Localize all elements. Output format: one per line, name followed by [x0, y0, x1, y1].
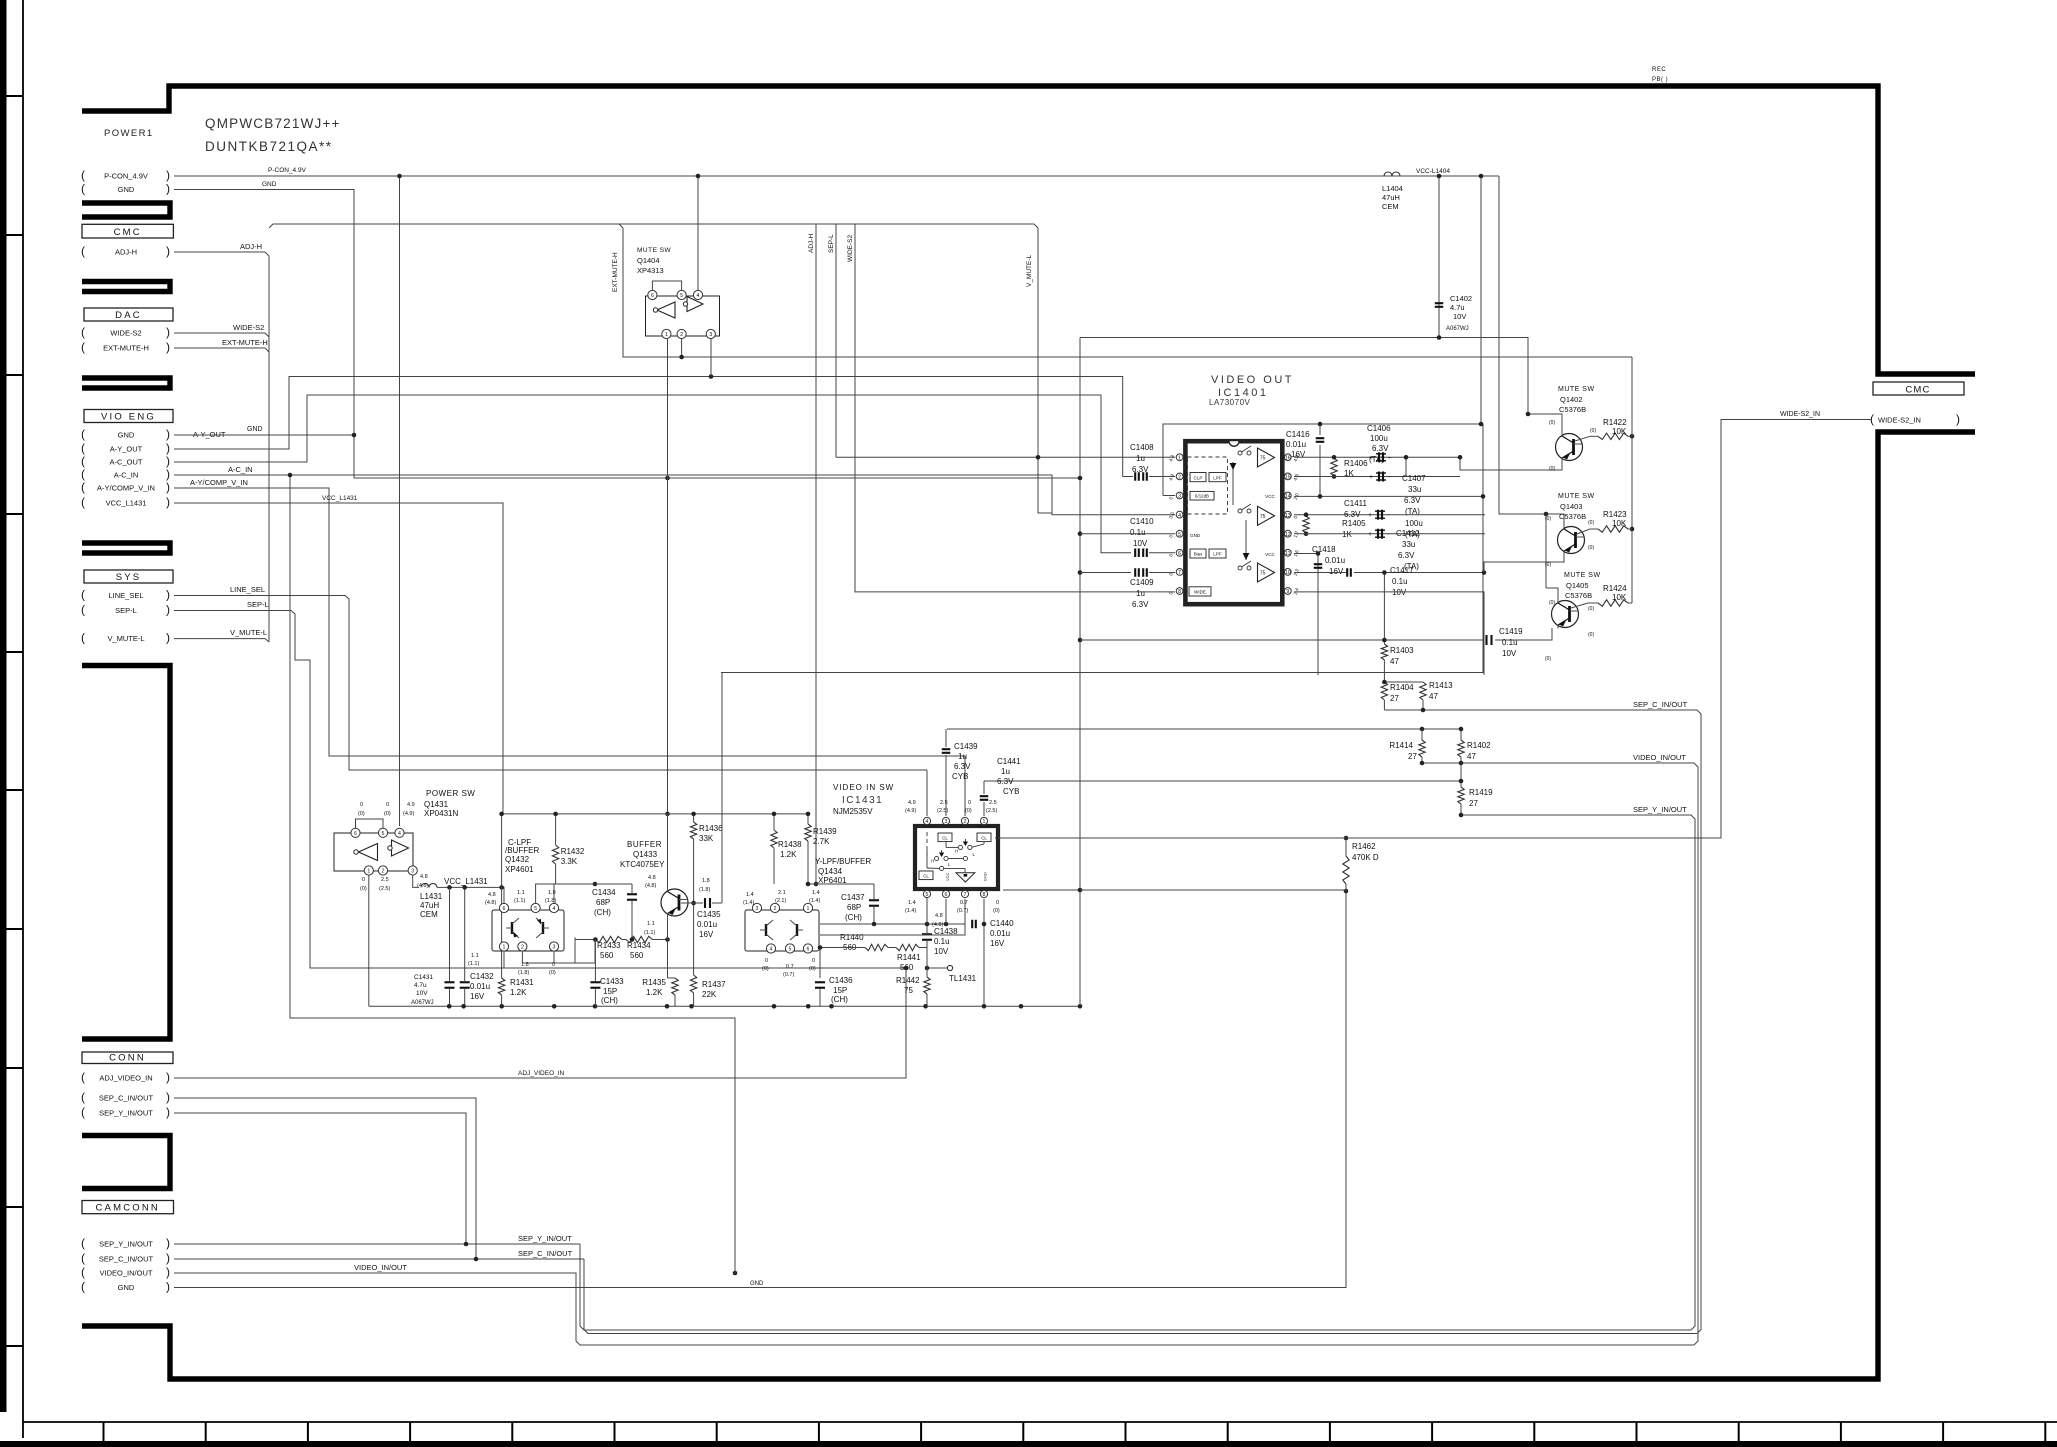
svg-text:CLP: CLP [1194, 475, 1203, 480]
svg-text:R1423: R1423 [1603, 510, 1627, 519]
wire SEP-L drop [835, 224, 837, 457]
svg-text:R1433: R1433 [597, 941, 621, 950]
svg-text:V_MUTE-L: V_MUTE-L [230, 628, 267, 637]
svg-text:(0): (0) [1549, 466, 1555, 472]
capacitor C1441 [980, 795, 989, 797]
IC1401 block CLP [1190, 473, 1206, 482]
IC1401 pin 1 [1176, 454, 1183, 461]
wire IC1431 pin7 down [820, 899, 965, 935]
svg-text:1.8: 1.8 [548, 890, 556, 896]
svg-text:-: - [1387, 510, 1390, 519]
wire CAMCONN SEP_C [174, 1258, 584, 1260]
wire pin15 row [1294, 476, 1460, 478]
left frame line [22, 0, 24, 1438]
svg-text:7: 7 [964, 892, 967, 898]
wire R1404/R1413 top tie [1384, 681, 1423, 683]
Q1434 pin 1 [803, 903, 812, 912]
svg-text:1.2K: 1.2K [646, 988, 663, 997]
wire C1434 bottom [631, 901, 633, 940]
svg-text:10V: 10V [416, 990, 428, 997]
wire x722 from IC1401 rail to C1435 [721, 673, 723, 904]
wire IC1431 pin2 up [964, 756, 966, 816]
left ruler ticks [6, 95, 23, 97]
svg-text:C1435: C1435 [697, 910, 721, 919]
wire VCC_L1431 pin [174, 503, 503, 814]
svg-text:47: 47 [1390, 657, 1399, 666]
svg-text:10V: 10V [1133, 539, 1148, 548]
svg-text:2: 2 [382, 869, 385, 875]
IC1431 pin 5 [923, 890, 930, 897]
wire CAMCONN VIDEO_IN/OUT [174, 1273, 1694, 1345]
wire Q1404 pin3 down to y376 [710, 339, 712, 377]
svg-text:VCC_L1431: VCC_L1431 [322, 495, 358, 502]
wire WIDE-S2 join bundle [174, 333, 269, 337]
resistor R1433 [595, 936, 622, 942]
svg-text:(0): (0) [358, 811, 365, 817]
svg-text:WIDE-S2_IN: WIDE-S2_IN [1780, 411, 1820, 418]
svg-text:R1414: R1414 [1389, 741, 1413, 750]
wire pin12 row [1294, 533, 1485, 535]
svg-text:CMC: CMC [1905, 385, 1930, 396]
wire CAMCONN GND [174, 891, 1346, 1288]
IC1401 block LPF [1209, 549, 1226, 558]
svg-text:(2.1): (2.1) [775, 898, 786, 904]
svg-text:(: ( [81, 1105, 85, 1119]
svg-text:R1422: R1422 [1603, 418, 1627, 427]
svg-text:CEM: CEM [420, 910, 438, 919]
resistor R1434 [626, 936, 653, 942]
Q1404 pin 4 [693, 290, 702, 299]
wire GND vio-eng pin to x354 [174, 434, 354, 436]
svg-text:(: ( [81, 325, 85, 339]
svg-text:6.3V: 6.3V [1132, 600, 1149, 609]
svg-text:C1432: C1432 [470, 972, 494, 981]
svg-text:C1409: C1409 [1130, 578, 1154, 587]
wire pin16 row [1294, 456, 1460, 458]
svg-text:5: 5 [926, 892, 929, 898]
wire bundle left vertical x269 [174, 252, 269, 642]
IC1401 inner dashed [1188, 457, 1228, 514]
svg-text:2.5: 2.5 [940, 800, 948, 806]
svg-text:): ) [166, 244, 170, 258]
wire mute bus x1632 [1631, 357, 1633, 603]
svg-text:A-Y/COMP_V_IN: A-Y/COMP_V_IN [190, 478, 248, 487]
svg-text:R1424: R1424 [1603, 584, 1627, 593]
svg-text:): ) [166, 427, 170, 441]
svg-text:VIDEO_IN/OUT: VIDEO_IN/OUT [100, 1269, 153, 1278]
inductor L1404 [1384, 172, 1392, 176]
junction CONN SEP_Y [464, 1242, 469, 1247]
svg-text:ADJ_VIDEO_IN: ADJ_VIDEO_IN [518, 1070, 565, 1077]
svg-text:ADJ_VIDEO_IN: ADJ_VIDEO_IN [99, 1074, 152, 1083]
inductor L1431 [421, 883, 429, 887]
capacitor C1418 [1314, 563, 1323, 565]
svg-text:P-CON_4.9V: P-CON_4.9V [268, 167, 307, 174]
svg-text:(0): (0) [549, 970, 556, 976]
wire C1437 top [873, 884, 875, 899]
svg-text:SEP_Y_IN/OUT: SEP_Y_IN/OUT [518, 1234, 572, 1243]
svg-text:KTC4075EY: KTC4075EY [620, 860, 665, 869]
svg-text:1: 1 [367, 869, 370, 875]
svg-text:CONN: CONN [109, 1053, 146, 1064]
junction P-CON x399 [397, 174, 402, 179]
svg-text:1: 1 [503, 945, 506, 951]
svg-text:): ) [166, 480, 170, 494]
svg-text:P-CON_4.9V: P-CON_4.9V [104, 172, 148, 181]
svg-text:4.9: 4.9 [908, 800, 916, 806]
svg-text:560: 560 [600, 951, 614, 960]
svg-text:(0): (0) [1588, 632, 1594, 638]
IC1401 amp 75 a [1258, 448, 1275, 467]
svg-text:(2.5): (2.5) [937, 808, 948, 814]
wire bottom SEP_C long [584, 1259, 1697, 1334]
Q1404 pin 2 [677, 329, 686, 338]
svg-text:): ) [166, 631, 170, 645]
svg-text:1.2K: 1.2K [780, 850, 797, 859]
capacitor C1402 [1435, 302, 1444, 304]
svg-text:(: ( [81, 441, 85, 455]
wire Q1432 pin2 [522, 937, 575, 963]
wire R1432 bottom to Q1432 pin4 [554, 864, 556, 903]
svg-text:(0): (0) [1588, 520, 1594, 526]
svg-text:CAMCONN: CAMCONN [96, 1203, 160, 1214]
resistor R1431 [501, 887, 503, 978]
svg-text:GND: GND [247, 426, 263, 433]
wire R1462 top [1345, 838, 1347, 856]
wire Q1433 emitter down [667, 917, 669, 979]
wire R1433/R1434 row [575, 939, 595, 941]
Q1434 body [745, 910, 819, 951]
svg-text:): ) [166, 168, 170, 182]
junction Q1404 pin3 on y376 [709, 374, 714, 379]
svg-text:SEP-L: SEP-L [115, 606, 137, 615]
capacitor C1438 [922, 933, 932, 935]
svg-text:2: 2 [521, 945, 524, 951]
wire Q1402 collector [1528, 414, 1562, 433]
svg-text:11: 11 [1285, 551, 1290, 557]
svg-text:A-Y_OUT: A-Y_OUT [110, 445, 143, 454]
svg-text:(0.7): (0.7) [957, 908, 968, 914]
svg-text:R1439: R1439 [813, 827, 837, 836]
svg-text:): ) [166, 467, 170, 481]
svg-text:0.1u: 0.1u [1502, 638, 1518, 647]
wire Q1431 pin3 to L1431 [413, 875, 419, 887]
svg-text:): ) [166, 441, 170, 455]
wire C1435 [694, 902, 703, 904]
svg-text:8: 8 [983, 892, 986, 898]
svg-text:Q1404: Q1404 [637, 256, 660, 265]
svg-text:C1412: C1412 [1396, 529, 1420, 538]
IC1401 pin 5 [1176, 530, 1183, 537]
svg-text:15P: 15P [833, 986, 847, 995]
svg-text:Q1433: Q1433 [633, 850, 658, 859]
svg-text:LPF: LPF [1213, 552, 1222, 557]
svg-text:4.8: 4.8 [935, 913, 943, 919]
svg-text:1: 1 [807, 906, 810, 912]
svg-text:R1434: R1434 [627, 941, 651, 950]
svg-text:Bias: Bias [1194, 552, 1203, 557]
svg-text:(TA): (TA) [1369, 455, 1384, 464]
svg-text:VIDEO_IN/OUT: VIDEO_IN/OUT [354, 1263, 407, 1272]
Q1434 transistor b [796, 924, 798, 936]
svg-text:VCC_L1431: VCC_L1431 [444, 877, 488, 886]
svg-text:(1.4): (1.4) [743, 900, 754, 906]
IC1401 amp 75 b [1258, 506, 1275, 525]
svg-text:SEP_C_IN/OUT: SEP_C_IN/OUT [1633, 700, 1688, 709]
svg-text:Q1403: Q1403 [1560, 502, 1583, 511]
wire VCC_L1431 row [437, 887, 504, 903]
wire VCC_L1404 branch C1402 [1438, 176, 1440, 338]
svg-text:10V: 10V [934, 947, 949, 956]
wire Q1433 base lead [681, 902, 694, 904]
svg-text:(2.5): (2.5) [379, 886, 390, 892]
wire SEP_Y_IN/OUT right [1461, 815, 1695, 1330]
wire C1416 vertical [1319, 424, 1321, 435]
wire V_MUTE-L join bundle [174, 639, 269, 642]
wire LINE_SEL [174, 596, 927, 771]
svg-text:(1.4): (1.4) [905, 908, 916, 914]
svg-text:MUTE SW: MUTE SW [1564, 572, 1601, 579]
svg-text:5: 5 [534, 906, 537, 912]
svg-text:15P: 15P [603, 987, 617, 996]
svg-text:WIDE-S2: WIDE-S2 [233, 323, 264, 332]
svg-text:CYB: CYB [1003, 787, 1019, 796]
svg-text:68P: 68P [847, 903, 861, 912]
Q1432 pin 1 [499, 942, 508, 951]
wire A-Y/COMP_V_IN [174, 488, 965, 756]
svg-text:75: 75 [904, 986, 913, 995]
junction P-CON x1481 [1479, 174, 1484, 179]
svg-text:R1413: R1413 [1429, 681, 1453, 690]
wire VCC vertical x501 [501, 814, 503, 888]
svg-text:VCC: VCC [945, 872, 950, 881]
svg-text:(: ( [81, 588, 85, 602]
svg-text:75: 75 [1260, 514, 1266, 520]
svg-text:75: 75 [1260, 571, 1266, 577]
svg-text:R1432: R1432 [561, 847, 585, 856]
wire pin14 VCC row [1294, 495, 1483, 497]
svg-text:CYB: CYB [952, 772, 968, 781]
svg-text:(1.4): (1.4) [809, 898, 820, 904]
wire pin9 row [1294, 592, 1484, 675]
svg-text:4: 4 [926, 819, 929, 825]
wire IC1431 pin8 down [983, 899, 985, 1006]
svg-text:CMC: CMC [114, 227, 142, 238]
svg-text:(: ( [81, 480, 85, 494]
wire IC1401 pin1 row [836, 456, 1175, 458]
svg-text:R1438: R1438 [778, 840, 802, 849]
svg-text:Q1434: Q1434 [818, 867, 843, 876]
svg-text:C1406: C1406 [1367, 424, 1391, 433]
svg-text:): ) [166, 1280, 170, 1294]
wire VCC_L1404 down right [1499, 176, 1546, 514]
connector box CONN [82, 1052, 173, 1064]
svg-text:(: ( [81, 427, 85, 441]
svg-text:+: + [1368, 531, 1372, 538]
svg-text:0.01u: 0.01u [1325, 556, 1345, 565]
transistor array Q1404 [646, 296, 720, 336]
Q1404 pin 5 [677, 290, 686, 299]
wire ADJ-H drop from bundle top [815, 224, 817, 884]
svg-text:(0): (0) [384, 811, 391, 817]
wire Q1405 collector [1546, 588, 1558, 600]
svg-text:C1441: C1441 [997, 757, 1021, 766]
svg-text:(CH): (CH) [831, 995, 848, 1004]
resistor R1432 [555, 814, 557, 845]
svg-text:VCC-L1404: VCC-L1404 [1416, 168, 1450, 175]
bottom frame line [23, 1421, 2057, 1423]
svg-text:1u: 1u [958, 752, 967, 761]
resistor R1404 [1381, 682, 1387, 700]
svg-text:GND: GND [750, 1281, 764, 1287]
IC1401 block 6/12dB [1190, 491, 1214, 500]
wire IC1431 pin6 down [945, 899, 947, 924]
wire P-CON to Q1404 pin4 [697, 176, 699, 290]
wire IC1431 right y890 [1003, 890, 1080, 1006]
svg-text:(: ( [81, 1070, 85, 1084]
svg-text:8: 8 [1178, 589, 1181, 595]
svg-text:+: + [1368, 512, 1372, 519]
svg-text:SEP-L: SEP-L [247, 600, 269, 609]
svg-text:100u: 100u [1370, 434, 1388, 443]
wire IC1431 pin5 down [926, 899, 928, 924]
svg-text:GND: GND [1190, 533, 1201, 538]
wire R1440 left [820, 947, 865, 949]
svg-text:(0): (0) [809, 966, 816, 972]
IC1401 pin 14 [1284, 492, 1291, 499]
svg-text:(0): (0) [1588, 545, 1594, 551]
svg-text:13: 13 [1285, 513, 1291, 519]
svg-text:C1417: C1417 [1390, 566, 1414, 575]
svg-text:33u: 33u [1408, 485, 1421, 494]
svg-text:1.4: 1.4 [908, 900, 916, 906]
PCB outline stub S5 [82, 666, 170, 1040]
svg-text:C1411: C1411 [1344, 499, 1368, 508]
svg-text:0.01u: 0.01u [470, 982, 490, 991]
svg-text:(: ( [81, 182, 85, 196]
svg-text:): ) [166, 603, 170, 617]
svg-text:2: 2 [964, 819, 967, 825]
svg-text:7: 7 [1178, 570, 1181, 576]
Q1431 top loop [356, 819, 384, 828]
wire C1431 drop [449, 887, 451, 981]
svg-text:C1433: C1433 [600, 977, 624, 986]
wire VCC_L1404 to outer VCC loop [1480, 176, 1482, 424]
transistor Q1433 [661, 889, 688, 916]
svg-text:(0.7): (0.7) [783, 972, 794, 978]
svg-text:5: 5 [789, 947, 792, 953]
PCB outline stub S3 [82, 378, 170, 388]
svg-text:Q1432: Q1432 [505, 855, 530, 864]
svg-text:6.3V: 6.3V [1344, 510, 1361, 519]
svg-text:C1402: C1402 [1450, 294, 1472, 303]
svg-text:MUTE SW: MUTE SW [637, 247, 672, 254]
svg-text:): ) [166, 1265, 170, 1279]
wire C1437 bottom [873, 907, 875, 924]
svg-text:A067WJ: A067WJ [1446, 326, 1469, 332]
wire pin13 row [1294, 514, 1485, 516]
Q1431 pin 4 [395, 828, 404, 837]
svg-text:PB( ): PB( ) [1652, 77, 1668, 83]
svg-text:0.1u: 0.1u [1130, 528, 1146, 537]
Q1434 pin 4 [766, 944, 775, 953]
svg-text:XP4313: XP4313 [637, 266, 664, 275]
resistor R1402 [1458, 740, 1464, 757]
svg-text:5: 5 [382, 831, 385, 837]
svg-text:CEM: CEM [1382, 202, 1399, 211]
svg-text:R1442: R1442 [896, 976, 920, 985]
svg-text:6: 6 [1178, 551, 1181, 557]
Q1434 pin 6 [803, 944, 812, 953]
svg-text:MUTE SW: MUTE SW [1558, 386, 1595, 393]
svg-text:0: 0 [360, 802, 363, 808]
resistor R1435 [672, 978, 678, 995]
junction CONN SEP_C [474, 1257, 479, 1262]
svg-text:14: 14 [1285, 494, 1291, 500]
svg-text:0: 0 [996, 900, 999, 906]
wire CONN SEP_Y down [174, 1113, 466, 1244]
svg-text:MUTE SW: MUTE SW [1558, 493, 1595, 500]
svg-text:470K D: 470K D [1352, 853, 1379, 862]
svg-text:): ) [166, 1090, 170, 1104]
svg-text:): ) [166, 454, 170, 468]
svg-text:GND: GND [118, 431, 135, 440]
svg-text:SEP-L: SEP-L [828, 234, 835, 253]
svg-text:(: ( [81, 631, 85, 645]
svg-text:47: 47 [1467, 752, 1476, 761]
capacitor C1419 [1485, 635, 1487, 645]
svg-text:R1440: R1440 [840, 933, 864, 942]
svg-text:22K: 22K [702, 990, 717, 999]
resistor R1424 [1598, 600, 1628, 606]
capacitor C1434 [627, 893, 637, 895]
svg-text:GND: GND [118, 1283, 135, 1292]
svg-text:): ) [166, 340, 170, 354]
IC1401 body [1185, 441, 1282, 604]
svg-text:(0): (0) [1545, 656, 1551, 662]
svg-text:Q1431: Q1431 [424, 800, 449, 809]
svg-text:(0): (0) [1590, 428, 1596, 434]
svg-text:2.7K: 2.7K [813, 837, 830, 846]
svg-text:(1.8): (1.8) [699, 887, 710, 893]
IC1401 pin 4 [1176, 511, 1183, 518]
svg-text:560: 560 [630, 951, 644, 960]
svg-text:10K: 10K [1612, 593, 1627, 602]
svg-text:6/12dB: 6/12dB [1195, 494, 1209, 499]
IC1401 pin 9 [1284, 588, 1291, 595]
Q1432 transistor b [542, 922, 544, 934]
svg-text:0.01u: 0.01u [990, 929, 1010, 938]
svg-text:WIDE-S2_IN: WIDE-S2_IN [1878, 416, 1921, 425]
resistor R1437 [690, 975, 696, 993]
svg-text:R1406: R1406 [1344, 459, 1368, 468]
svg-text:): ) [166, 495, 170, 509]
IC1431 pin 4 [923, 817, 930, 824]
svg-text:(: ( [81, 340, 85, 354]
resistor R1423 [1598, 526, 1628, 532]
connector box DAC [84, 308, 173, 321]
svg-text:SEP_Y_IN/OUT: SEP_Y_IN/OUT [1633, 805, 1687, 814]
resistor R1403 [1381, 644, 1387, 660]
resistor R1413 [1420, 682, 1426, 700]
svg-text:/BUFFER: /BUFFER [505, 846, 539, 855]
svg-text:3.3K: 3.3K [561, 857, 578, 866]
wire EXT-MUTE-H drop [619, 224, 1632, 357]
junction C1402 bottom [1437, 335, 1442, 340]
svg-text:): ) [166, 588, 170, 602]
svg-text:(: ( [81, 603, 85, 617]
wire y338 supply [1080, 338, 1528, 415]
